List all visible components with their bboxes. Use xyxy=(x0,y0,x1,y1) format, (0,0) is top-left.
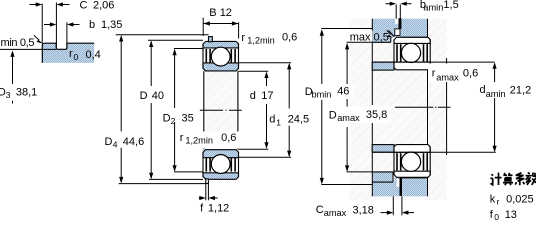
svg-text:min 0,5: min 0,5 xyxy=(1,37,35,49)
svg-text:0: 0 xyxy=(74,52,79,62)
svg-text:0,6: 0,6 xyxy=(463,67,478,79)
svg-text:r: r xyxy=(180,132,184,144)
svg-text:D: D xyxy=(140,90,148,102)
svg-text:B 12: B 12 xyxy=(209,7,232,19)
svg-text:amin: amin xyxy=(486,89,506,99)
svg-text:2: 2 xyxy=(171,116,176,126)
svg-text:amax: amax xyxy=(436,72,459,82)
svg-text:C: C xyxy=(316,204,324,216)
svg-text:D: D xyxy=(329,109,337,121)
svg-text:3: 3 xyxy=(6,90,11,100)
svg-text:0,6: 0,6 xyxy=(282,31,297,43)
svg-text:44,6: 44,6 xyxy=(123,136,144,148)
svg-text:1,5: 1,5 xyxy=(443,0,458,11)
svg-text:amax: amax xyxy=(337,113,360,123)
svg-text:40: 40 xyxy=(152,90,164,102)
svg-text:1,35: 1,35 xyxy=(101,19,122,31)
svg-text:d: d xyxy=(250,90,256,102)
svg-text:24,5: 24,5 xyxy=(288,114,309,126)
svg-text:21,2: 21,2 xyxy=(510,84,531,96)
svg-text:3,18: 3,18 xyxy=(353,205,374,217)
svg-text:r: r xyxy=(497,196,500,206)
svg-text:38,1: 38,1 xyxy=(16,86,37,98)
svg-text:1,2min: 1,2min xyxy=(185,135,213,145)
svg-text:C: C xyxy=(80,0,88,12)
svg-text:35,8: 35,8 xyxy=(366,109,387,121)
svg-text:r: r xyxy=(69,48,73,60)
svg-text:D: D xyxy=(163,112,171,124)
svg-text:bmin: bmin xyxy=(312,89,332,99)
svg-text:r: r xyxy=(432,68,436,80)
svg-text:0,6: 0,6 xyxy=(221,132,236,144)
svg-text:D: D xyxy=(105,136,113,148)
svg-text:amin: amin xyxy=(423,3,443,13)
svg-text:1,2min: 1,2min xyxy=(247,36,275,46)
svg-text:0: 0 xyxy=(494,212,499,221)
svg-text:1: 1 xyxy=(276,118,281,128)
svg-text:k: k xyxy=(490,194,496,206)
svg-text:2,06: 2,06 xyxy=(93,0,114,12)
svg-text:amax: amax xyxy=(324,208,347,218)
svg-text:0,4: 0,4 xyxy=(86,49,101,61)
svg-text:46: 46 xyxy=(337,86,349,98)
svg-text:d: d xyxy=(269,114,275,126)
svg-text:r: r xyxy=(241,32,245,44)
svg-text:13: 13 xyxy=(505,209,517,221)
svg-text:max 0,5: max 0,5 xyxy=(350,31,389,43)
svg-text:0,025: 0,025 xyxy=(506,194,534,206)
svg-text:35: 35 xyxy=(182,112,194,124)
svg-text:4: 4 xyxy=(113,140,118,150)
svg-text:1,12: 1,12 xyxy=(208,202,229,214)
svg-text:17: 17 xyxy=(261,90,273,102)
svg-text:b: b xyxy=(89,19,95,31)
